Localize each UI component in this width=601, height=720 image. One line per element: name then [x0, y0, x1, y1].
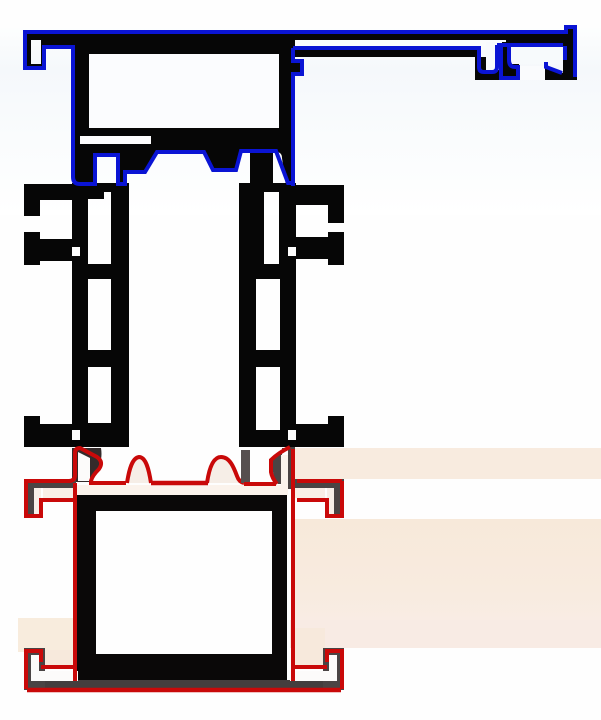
blue contour: right outer face: [573, 31, 577, 77]
peach band 1 right: [294, 448, 601, 479]
peach inner patch bottom-left: [44, 650, 74, 668]
red contour: top-left flange details: [26, 481, 73, 516]
blue contour: left hook bottom + notch + box left wall + bead: [25, 47, 293, 184]
right rail with slots: [239, 183, 296, 447]
bottom-left hook slot white: [31, 655, 39, 678]
blue contour: left edge + top edge + stub: [25, 27, 575, 70]
bottom-left hook under-lip white: [31, 671, 78, 681]
top-left flange bar A: [24, 479, 76, 488]
right foot bar: [296, 424, 344, 447]
cluster mid leg: [502, 42, 511, 68]
red contour: right clip curve: [271, 447, 290, 484]
red contour: bottom-right hook: [294, 651, 342, 689]
top-left flange cap: [24, 479, 34, 518]
right rail white junction square upper: [288, 247, 297, 256]
red contour: valley 2: [151, 481, 208, 486]
right fin 1 cap: [328, 185, 344, 223]
top-left flange lip: [24, 512, 43, 518]
peach corner bottom-left: [18, 618, 74, 652]
left fin 2 cap: [24, 232, 40, 265]
left fin 1 cap: [24, 184, 40, 216]
red contour: left outer edge of box: [73, 483, 77, 681]
black under bar at cluster: [506, 40, 577, 45]
top bar: [24, 32, 577, 40]
red contour: valley 3 + ramp: [244, 482, 276, 486]
bottom bar: [26, 680, 342, 689]
main box of sash: [77, 495, 287, 680]
top box interior light: [89, 54, 279, 128]
red contour: bottom bar bottom edge: [27, 688, 341, 693]
red contour: top-right flange bar top: [297, 479, 342, 483]
top-right flange lip: [325, 512, 344, 518]
white gap under box bottom: [80, 136, 151, 144]
red contour: flange top + bead left edge + curl + valley 1: [24, 448, 126, 483]
right foot cap: [328, 416, 344, 447]
bottom-right hook cap: [323, 648, 344, 690]
bottom-right hook under-lip white: [290, 671, 337, 681]
cluster right foot: [544, 64, 563, 80]
blue contour: box right wall + lip + bead right edge: [293, 48, 302, 186]
right fin 2 bar: [296, 237, 328, 259]
left rail white junction square upper: [71, 247, 80, 256]
blue contour: C right wall + foot + right outer edge: [563, 46, 567, 60]
C slot mouth white: [519, 66, 545, 80]
top-left hook interior light: [34, 488, 41, 516]
right stub: [567, 26, 575, 34]
right fin 1 bar: [296, 185, 344, 205]
C slot white: [509, 47, 563, 64]
left foot bar: [24, 424, 72, 447]
top-right hook interior light: [327, 488, 334, 516]
left fin 1 bar: [24, 184, 72, 200]
U slot white: [486, 42, 502, 70]
bead right light sliver: [281, 455, 288, 487]
bead left blob: [72, 448, 102, 482]
left end hook with slot: [24, 32, 46, 69]
top-left flange slot light: [43, 488, 74, 498]
red contour: right outer edge: [291, 449, 295, 681]
blue contour: second wall top + U hook: [293, 45, 497, 72]
top-right flange slot light: [294, 488, 325, 498]
gray column under right rail: [241, 450, 250, 483]
cluster U bottom block: [475, 57, 519, 80]
peach corner bottom-right: [295, 628, 325, 668]
bottom-right hook slot white: [329, 655, 337, 678]
right rail white junction square lower: [288, 430, 297, 440]
pinkish band 3 right: [290, 620, 601, 648]
main hollow box: [71, 32, 295, 146]
cluster right wall: [563, 40, 577, 80]
left rail with slots: [72, 183, 129, 447]
top-right flange cap: [334, 479, 344, 518]
glazing bead body of frame: [73, 142, 295, 186]
left rail white junction square lower: [71, 430, 80, 440]
upper light blue tint band: [0, 28, 601, 215]
bottom-left hook cap: [24, 648, 45, 690]
right wall lip: [295, 62, 304, 75]
bead right wall gray: [288, 447, 295, 489]
bead bump 2: [207, 457, 244, 483]
blue contour: C left leg + left foot: [501, 44, 518, 78]
bead left foot slot white: [78, 452, 90, 481]
red contour: top-right flange details: [297, 481, 342, 516]
peach band 2 right: [294, 519, 601, 621]
right fin 2 cap: [328, 232, 344, 265]
left foot cap: [24, 416, 40, 447]
second wall (glazing flange): [295, 48, 481, 57]
blue contour: C groove ceiling: [497, 43, 563, 47]
red contour: bottom-left hook: [26, 651, 74, 689]
left fin 2 bar: [40, 239, 72, 261]
blue contour: mouth right face + foot diagonal: [546, 62, 562, 73]
bead right clip gray fill: [273, 448, 290, 484]
top-right flange bar A: [292, 479, 344, 488]
light gap above box top: [77, 485, 288, 495]
black over left notch ceiling: [44, 32, 75, 47]
bead bump 1: [127, 457, 151, 483]
